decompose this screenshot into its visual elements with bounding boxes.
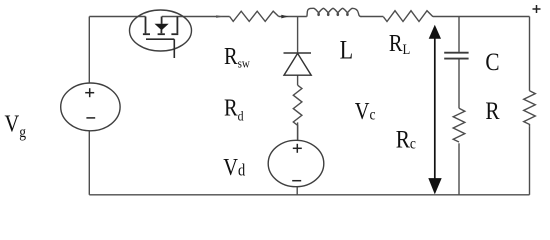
svg-text:L: L [340,37,353,65]
svg-text:Rsw: Rsw [224,42,250,71]
svg-text:Vc: Vc [355,98,376,125]
svg-text:C: C [485,48,499,76]
svg-text:R: R [485,97,500,125]
svg-text:RL: RL [389,29,410,58]
svg-text:Rc: Rc [396,126,417,154]
svg-text:Vg: Vg [5,110,27,141]
svg-text:Vd: Vd [223,154,245,181]
svg-text:Rd: Rd [224,94,244,124]
